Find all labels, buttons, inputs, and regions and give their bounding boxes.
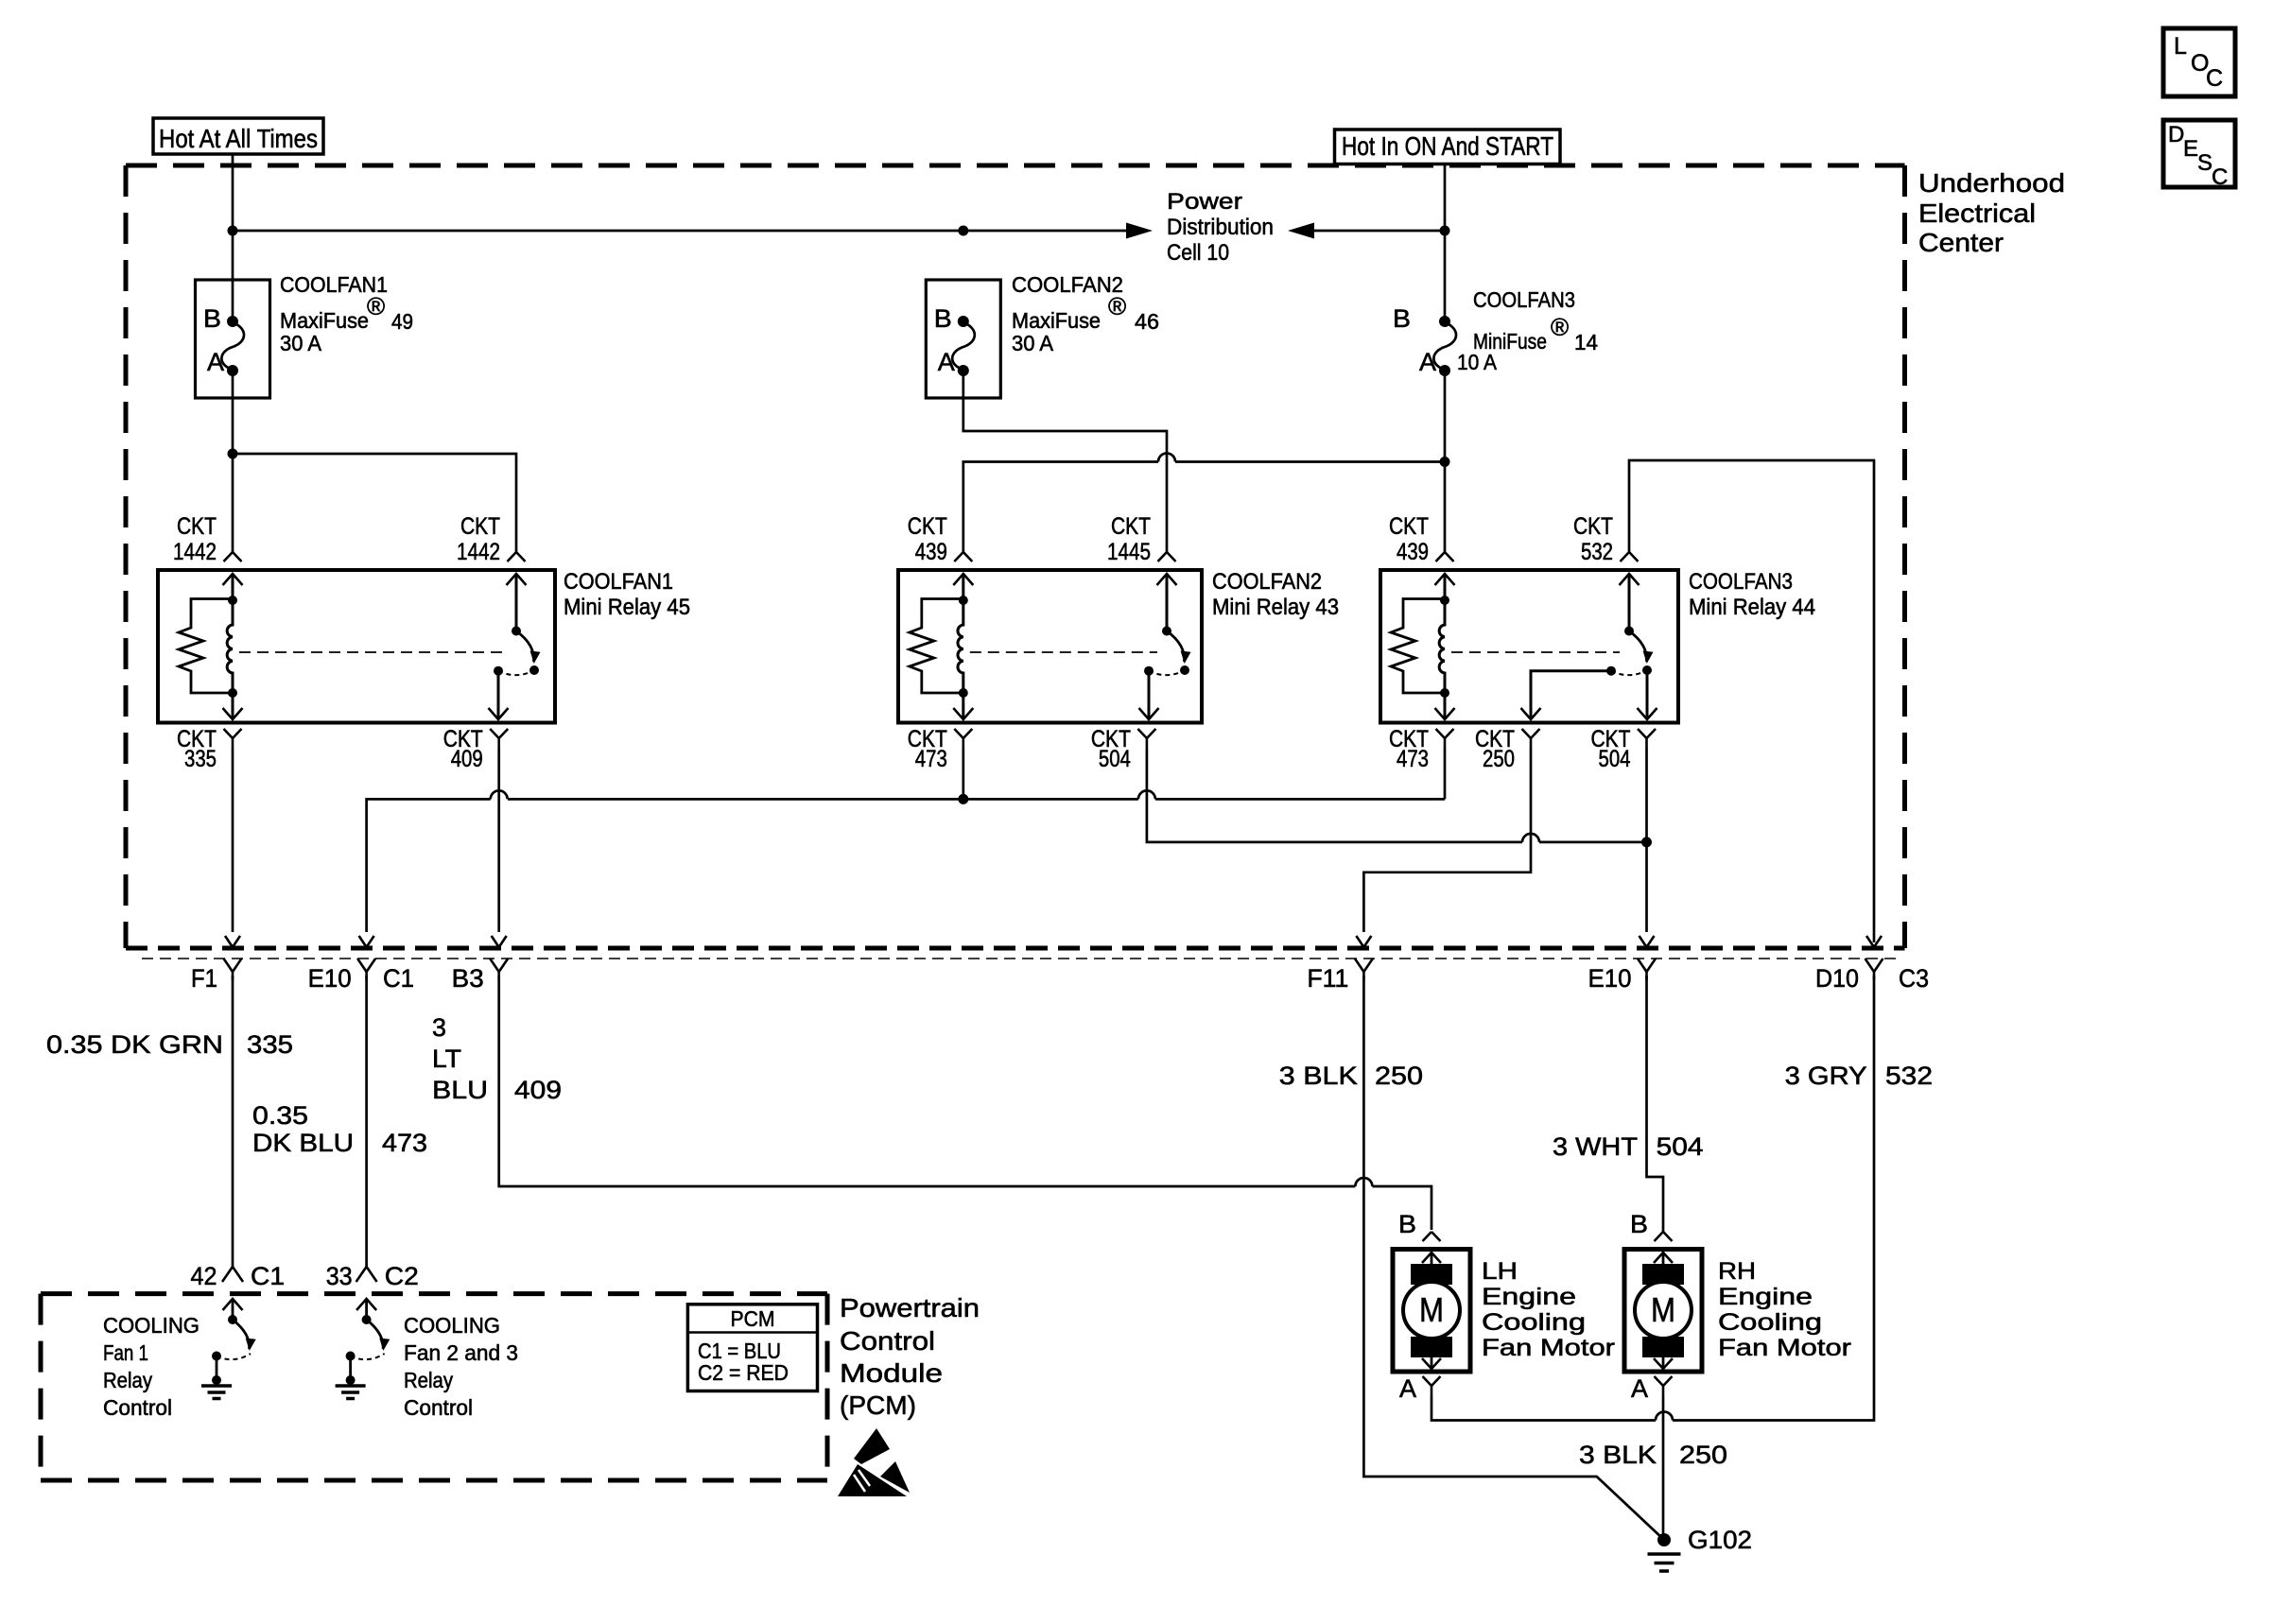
LH Engine Cooling Fan Motor pin B xyxy=(1398,1210,1441,1241)
node CKT 1442 (relay input pin) xyxy=(457,513,526,565)
wire: branch to relay 45 switch pin xyxy=(233,454,516,552)
svg-text:49: 49 xyxy=(391,309,413,334)
svg-text:E10: E10 xyxy=(308,964,352,993)
label: COOLING Fan 1 Relay Control xyxy=(103,1313,200,1420)
label: 3 WHT 504 xyxy=(1553,1132,1704,1161)
LH fan motor symbol xyxy=(1403,1250,1460,1373)
relay 44 contact output to CKT 250 xyxy=(1521,671,1612,719)
node CKT 1442 (relay input pin) xyxy=(173,513,242,565)
svg-text:250: 250 xyxy=(1375,1062,1423,1090)
fuse COOLFAN1 MaxiFuse 49 box xyxy=(196,280,270,398)
node CKT 473 (relay output pin) xyxy=(1389,726,1454,772)
svg-text:3 BLK: 3 BLK xyxy=(1579,1441,1657,1469)
svg-text:14: 14 xyxy=(1574,330,1598,354)
svg-text:Cell 10: Cell 10 xyxy=(1167,240,1229,266)
svg-text:250: 250 xyxy=(1483,746,1515,772)
junction: CKT 504 node at relay 44 xyxy=(1641,837,1652,847)
RH fan motor box xyxy=(1624,1250,1702,1373)
svg-text:B: B xyxy=(1393,304,1411,333)
svg-text:A: A xyxy=(1399,1374,1416,1403)
svg-text:Powertrain: Powertrain xyxy=(840,1293,980,1322)
svg-text:Module: Module xyxy=(840,1358,943,1388)
node CKT 439 (relay input pin) xyxy=(908,513,973,565)
label: RH Engine Cooling Fan Motor xyxy=(1718,1258,1851,1361)
ground (PCM internal) xyxy=(336,1356,366,1399)
relay 44 switch contact xyxy=(1606,666,1616,676)
LH fan motor box xyxy=(1393,1250,1470,1373)
svg-text:CKT: CKT xyxy=(1389,513,1429,540)
connector pin F11 xyxy=(1307,936,1373,993)
svg-text:46: 46 xyxy=(1135,309,1159,334)
connector pin B3 xyxy=(452,936,509,993)
wire: 3 GRY 532 from D10 down to LH fan motor A (hops over ground wire) xyxy=(1431,976,1874,1421)
svg-text:L: L xyxy=(2174,33,2187,60)
svg-text:473: 473 xyxy=(1397,746,1429,772)
wire: Hot At All Times feed down to fuse B xyxy=(232,154,234,321)
svg-text:A: A xyxy=(938,348,955,376)
svg-text:3: 3 xyxy=(432,1013,446,1042)
wire: Hot In ON And START bus to Power Distribution xyxy=(1314,230,1445,233)
svg-text:504: 504 xyxy=(1099,746,1131,772)
wire: 0.35 DK BLU 473 to PCM pin 33 xyxy=(365,976,368,1267)
relay COOLFAN1 Mini Relay 45 box xyxy=(158,570,555,723)
label: Powertrain Control Module (PCM) xyxy=(840,1293,980,1420)
svg-text:COOLING: COOLING xyxy=(103,1313,200,1338)
svg-text:Relay: Relay xyxy=(103,1368,152,1392)
PCM switch ground contact xyxy=(346,1352,385,1361)
relay 44 coil xyxy=(1439,600,1445,693)
Powertrain Control Module dashed box xyxy=(41,1294,827,1480)
svg-text:B: B xyxy=(1630,1210,1648,1238)
label: COOLFAN3 MiniFuse(R)14 10 A xyxy=(1457,287,1598,374)
svg-text:CKT: CKT xyxy=(908,513,947,540)
junction: Hot In ON And START bus tap xyxy=(1440,226,1450,236)
svg-text:473: 473 xyxy=(915,746,947,772)
label: 0.35 DK GRN 335 xyxy=(46,1030,293,1059)
relay 45 coil suppression resistor xyxy=(179,599,233,694)
relay 43 switch output (bottom) xyxy=(1139,671,1159,719)
arrow into Power Distribution Cell 10 (left) xyxy=(1126,223,1153,239)
svg-text:439: 439 xyxy=(1397,539,1429,565)
svg-text:®: ® xyxy=(1551,313,1569,341)
svg-text:COOLFAN3: COOLFAN3 xyxy=(1473,287,1575,312)
fuse COOLFAN2 element xyxy=(952,316,975,376)
svg-text:A: A xyxy=(1631,1374,1648,1403)
relay 43 switch travel dashed arc xyxy=(1149,670,1185,675)
connector pin E10 xyxy=(308,936,376,993)
svg-text:B3: B3 xyxy=(452,964,484,993)
svg-text:Fan Motor: Fan Motor xyxy=(1482,1335,1615,1361)
svg-text:CKT: CKT xyxy=(1573,513,1613,540)
relay 45 coil xyxy=(227,600,233,693)
svg-text:Mini Relay 45: Mini Relay 45 xyxy=(564,595,690,620)
svg-text:1442: 1442 xyxy=(457,539,500,565)
svg-text:Engine: Engine xyxy=(1718,1284,1813,1310)
svg-text:504: 504 xyxy=(1657,1132,1704,1161)
arrow into Power Distribution Cell 10 (right) xyxy=(1288,223,1314,239)
svg-text:LH: LH xyxy=(1482,1258,1518,1285)
svg-text:G102: G102 xyxy=(1688,1526,1752,1554)
junction: CKT 473 node at relay 43 xyxy=(958,794,968,804)
wire: CKT 409 down to connector B3 xyxy=(497,749,500,932)
wire: Hot In ON And START feed down to COOLFAN3 fuse xyxy=(1444,164,1447,322)
svg-text:COOLFAN2: COOLFAN2 xyxy=(1012,272,1123,297)
svg-text:532: 532 xyxy=(1885,1062,1933,1090)
svg-text:42: 42 xyxy=(191,1262,217,1290)
relay 44 arm output to CKT 504 xyxy=(1638,670,1657,719)
svg-text:F11: F11 xyxy=(1307,964,1348,993)
relay 43 coil suppression resistor xyxy=(910,599,963,694)
LOC reference box xyxy=(2163,28,2235,96)
relay 43 coil-to-switch dashed link xyxy=(970,651,1157,653)
connector pin E10 xyxy=(1588,936,1657,993)
svg-text:Cooling: Cooling xyxy=(1718,1309,1822,1336)
wire: CKT 439 run to relay 43 coil (hops over CKT 1445) xyxy=(1175,460,1445,463)
svg-text:Hot At All Times: Hot At All Times xyxy=(159,124,318,153)
fuse COOLFAN3 element xyxy=(1433,316,1456,376)
UEC bottom connector dashed line xyxy=(126,946,1905,951)
relay 45 switch output (bottom) xyxy=(489,671,509,719)
svg-text:C2 = RED: C2 = RED xyxy=(698,1360,789,1385)
svg-text:439: 439 xyxy=(915,539,947,565)
svg-text:Fan 1: Fan 1 xyxy=(103,1340,148,1365)
node CKT 335 (relay output pin) xyxy=(177,726,242,772)
svg-text:PCM: PCM xyxy=(731,1306,775,1331)
svg-text:Relay: Relay xyxy=(404,1368,453,1392)
svg-text:10 A: 10 A xyxy=(1457,350,1498,374)
svg-text:E: E xyxy=(2183,136,2198,162)
svg-text:®: ® xyxy=(367,292,385,320)
fuse COOLFAN2 MaxiFuse 46 box xyxy=(926,280,1000,398)
relay 44 coil suppression resistor xyxy=(1391,599,1445,694)
label: Hot At All Times xyxy=(153,118,323,154)
svg-text:(PCM): (PCM) xyxy=(840,1391,916,1420)
label: LH Engine Cooling Fan Motor xyxy=(1482,1258,1615,1361)
svg-text:Electrical: Electrical xyxy=(1918,199,2036,228)
svg-text:C: C xyxy=(2212,164,2228,190)
svg-text:Underhood: Underhood xyxy=(1918,168,2065,198)
svg-text:B: B xyxy=(1398,1210,1416,1238)
label: COOLFAN2 Mini Relay 43 xyxy=(1212,569,1339,620)
svg-text:3 WHT: 3 WHT xyxy=(1553,1132,1638,1161)
relay 45 coil-to-switch dashed link xyxy=(239,651,507,653)
svg-text:Power: Power xyxy=(1167,189,1242,215)
svg-text:409: 409 xyxy=(514,1076,562,1104)
node CKT 504 (relay output pin) xyxy=(1591,726,1657,772)
relay 45 switch travel dashed arc xyxy=(498,670,534,675)
relay 43 switch common pin xyxy=(1157,574,1177,636)
wire: CKT 504 from relay 43 over to relay 44 (hops over 250) xyxy=(1147,749,1647,842)
svg-text:Mini Relay 43: Mini Relay 43 xyxy=(1212,595,1339,620)
svg-text:Cooling: Cooling xyxy=(1482,1309,1586,1336)
Underhood Electrical Center dashed boundary xyxy=(126,165,1905,948)
svg-text:LT: LT xyxy=(432,1045,461,1073)
svg-text:33: 33 xyxy=(326,1262,353,1290)
connector pin D10 xyxy=(1815,936,1883,993)
relay 43 coil pin (top) xyxy=(953,574,973,605)
svg-text:Distribution: Distribution xyxy=(1167,215,1274,240)
svg-text:3 BLK: 3 BLK xyxy=(1279,1062,1358,1090)
svg-text:Control: Control xyxy=(103,1395,172,1420)
PCM connector color legend box xyxy=(687,1304,817,1391)
svg-text:D: D xyxy=(2168,122,2184,147)
svg-text:Hot In ON And START: Hot In ON And START xyxy=(1342,131,1553,161)
svg-text:COOLFAN1: COOLFAN1 xyxy=(564,569,673,595)
junction: CKT 1442 branch xyxy=(228,449,238,459)
svg-text:S: S xyxy=(2197,150,2212,176)
svg-text:A: A xyxy=(1419,348,1436,376)
wire: 3 LT BLU 409 to LH fan motor B (hops over 250) xyxy=(499,976,1431,1230)
relay 43 switch contact xyxy=(1144,666,1154,676)
wire: CKT 473 run (hops over 409 and 504) xyxy=(367,790,1445,932)
relay COOLFAN3 Mini Relay 44 box xyxy=(1380,570,1678,723)
node CKT 1445 (relay input pin) xyxy=(1107,513,1176,565)
junction: COOLFAN2 fuse tap xyxy=(958,226,968,236)
relay 44 coil pin (bottom) xyxy=(1435,688,1455,719)
node CKT 250 (relay output pin) xyxy=(1475,726,1540,772)
svg-text:CKT: CKT xyxy=(1111,513,1151,540)
label: COOLFAN3 Mini Relay 44 xyxy=(1689,569,1815,620)
svg-text:335: 335 xyxy=(184,746,217,772)
node CKT 409 (relay output pin) xyxy=(443,726,509,772)
svg-text:CKT: CKT xyxy=(177,513,217,540)
svg-text:MaxiFuse: MaxiFuse xyxy=(280,308,369,333)
wire: 3 BLK 250 from F11 down to ground run xyxy=(1363,976,1664,1540)
svg-text:Mini Relay 44: Mini Relay 44 xyxy=(1689,595,1815,620)
svg-text:COOLFAN3: COOLFAN3 xyxy=(1689,569,1793,595)
RH fan motor symbol xyxy=(1635,1250,1692,1373)
fuse COOLFAN1 element xyxy=(221,316,244,376)
label: COOLING Fan 2 and 3 Relay Control xyxy=(404,1313,518,1420)
svg-text:M: M xyxy=(1419,1290,1444,1329)
svg-text:COOLFAN2: COOLFAN2 xyxy=(1212,569,1322,595)
svg-text:B: B xyxy=(203,304,221,333)
PCM connector pin 33 C2 xyxy=(326,1262,419,1290)
svg-text:250: 250 xyxy=(1679,1441,1727,1469)
label: 3 GRY 532 xyxy=(1785,1062,1933,1090)
PCM switch ground contact xyxy=(212,1352,251,1361)
relay 45 coil pin (top) xyxy=(223,574,243,605)
svg-text:3 GRY: 3 GRY xyxy=(1785,1062,1867,1090)
relay COOLFAN2 Mini Relay 43 box xyxy=(898,570,1202,723)
label: COOLFAN1 MaxiFuse(R)49 30 A xyxy=(280,272,413,355)
svg-text:1445: 1445 xyxy=(1107,539,1151,565)
svg-text:DK BLU: DK BLU xyxy=(252,1129,354,1157)
junction: CKT 439 node xyxy=(1440,457,1450,467)
in-line connector thin dashed line xyxy=(142,958,1900,959)
ESD sensitive device symbol xyxy=(838,1428,910,1496)
relay 43 coil pin (bottom) xyxy=(953,688,973,719)
svg-text:0.35 DK GRN: 0.35 DK GRN xyxy=(46,1030,223,1059)
relay 45 switch arm xyxy=(516,631,541,676)
svg-text:473: 473 xyxy=(382,1129,427,1157)
wire: 3 WHT 504 from E10 to RH fan motor B xyxy=(1647,976,1664,1232)
svg-text:1442: 1442 xyxy=(173,539,217,565)
label: Hot In ON And START xyxy=(1335,130,1561,164)
label: Power Distribution Cell 10 xyxy=(1167,189,1274,266)
wire: CKT 439 down to relay 44 coil pin xyxy=(1444,462,1447,553)
svg-text:C1: C1 xyxy=(383,964,414,993)
svg-text:504: 504 xyxy=(1599,746,1631,772)
label: Underhood Electrical Center xyxy=(1918,168,2065,257)
relay 44 switch common pin xyxy=(1620,574,1640,636)
ground (PCM internal) xyxy=(201,1356,232,1399)
svg-text:C2: C2 xyxy=(385,1262,419,1290)
svg-text:BLU: BLU xyxy=(432,1076,488,1104)
svg-text:MaxiFuse: MaxiFuse xyxy=(1012,308,1101,333)
wire: CKT 335 down to connector F1 xyxy=(232,749,234,932)
label: 3 BLK 250 (at F11) xyxy=(1279,1062,1423,1090)
connector pin F1 xyxy=(191,936,242,993)
svg-text:532: 532 xyxy=(1581,539,1613,565)
label: 3 BLK 250 (ground run) xyxy=(1579,1441,1727,1469)
junction: bus tap at Hot At All Times feed xyxy=(228,226,238,236)
wire: down to relay 45 coil pin xyxy=(232,454,234,552)
node CKT 504 (relay output pin) xyxy=(1091,726,1156,772)
RH Engine Cooling Fan Motor pin B xyxy=(1630,1210,1673,1241)
relay 44 switch travel dashed arc xyxy=(1611,670,1647,675)
wire: CKT 532 from relay 44 switch up and right xyxy=(1629,460,1874,942)
wire: CKT 250 from relay 44 to connector F11 xyxy=(1363,749,1531,932)
wire: COOLFAN2 fuse output to CKT 1445 xyxy=(963,371,1167,552)
PCM driver switch (relay control) xyxy=(356,1299,390,1351)
relay 43 coil xyxy=(958,600,963,693)
svg-text:Control: Control xyxy=(404,1395,473,1420)
svg-text:RH: RH xyxy=(1718,1258,1756,1285)
wire: CKT 473 from relay 43 xyxy=(962,749,964,799)
svg-text:COOLING: COOLING xyxy=(404,1313,500,1338)
svg-text:Engine: Engine xyxy=(1482,1284,1576,1310)
svg-text:®: ® xyxy=(1108,292,1126,320)
svg-text:C3: C3 xyxy=(1899,964,1929,993)
relay 43 switch arm xyxy=(1167,631,1191,676)
svg-text:C: C xyxy=(2206,65,2223,92)
svg-text:A: A xyxy=(207,348,224,376)
relay 44 switch arm xyxy=(1629,631,1654,676)
svg-text:30 A: 30 A xyxy=(280,331,322,355)
svg-text:Control: Control xyxy=(840,1326,935,1356)
relay 45 switch contact xyxy=(494,666,503,676)
relay 45 switch common pin xyxy=(507,574,527,636)
svg-text:E10: E10 xyxy=(1588,964,1632,993)
svg-text:0.35: 0.35 xyxy=(252,1101,308,1130)
svg-text:M: M xyxy=(1651,1290,1675,1329)
wire: CKT 473 from relay 44 down xyxy=(1444,749,1447,799)
ground G102 xyxy=(1648,1526,1753,1571)
svg-text:335: 335 xyxy=(247,1030,293,1059)
wire: bus to Power Distribution (left segment) xyxy=(233,230,1127,233)
wire: CKT 504 down to connector E10 xyxy=(1645,749,1648,932)
relay 44 coil-to-switch dashed link xyxy=(1451,651,1620,653)
label: COOLFAN1 Mini Relay 45 xyxy=(564,569,690,620)
DESC reference box xyxy=(2163,120,2235,190)
RH fan motor pin A xyxy=(1631,1374,1673,1403)
PCM connector pin 42 C1 xyxy=(191,1262,286,1290)
node CKT 532 (relay input pin) xyxy=(1573,513,1639,565)
svg-text:F1: F1 xyxy=(191,964,217,993)
svg-text:CKT: CKT xyxy=(460,513,500,540)
node CKT 473 (relay output pin) xyxy=(908,726,973,772)
svg-text:B: B xyxy=(934,304,952,333)
svg-text:Fan Motor: Fan Motor xyxy=(1718,1335,1851,1361)
svg-text:C1: C1 xyxy=(251,1262,285,1290)
LH fan motor pin A xyxy=(1399,1374,1441,1403)
relay 44 coil pin (top) xyxy=(1435,574,1455,605)
wire: RH fan motor A to ground xyxy=(1662,1396,1665,1540)
svg-text:30 A: 30 A xyxy=(1012,331,1054,355)
relay 45 coil pin (bottom) xyxy=(223,688,243,719)
PCM driver switch (relay control) xyxy=(223,1299,256,1351)
wire: COOLFAN3 fuse output down xyxy=(1444,371,1447,462)
svg-text:Center: Center xyxy=(1918,228,2004,257)
svg-text:409: 409 xyxy=(451,746,483,772)
wire: 0.35 DK GRN 335 to PCM pin 42 xyxy=(232,976,234,1267)
svg-text:D10: D10 xyxy=(1815,964,1859,993)
label: 3 LT BLU 409 xyxy=(432,1013,562,1104)
svg-text:Fan 2 and 3: Fan 2 and 3 xyxy=(404,1340,518,1365)
label: COOLFAN2 MaxiFuse(R)46 30 A xyxy=(1012,272,1159,355)
label: 0.35 DK BLU 473 xyxy=(252,1101,427,1157)
node CKT 439 (relay input pin) xyxy=(1389,513,1454,565)
wire: COOLFAN1 fuse output xyxy=(232,371,234,454)
